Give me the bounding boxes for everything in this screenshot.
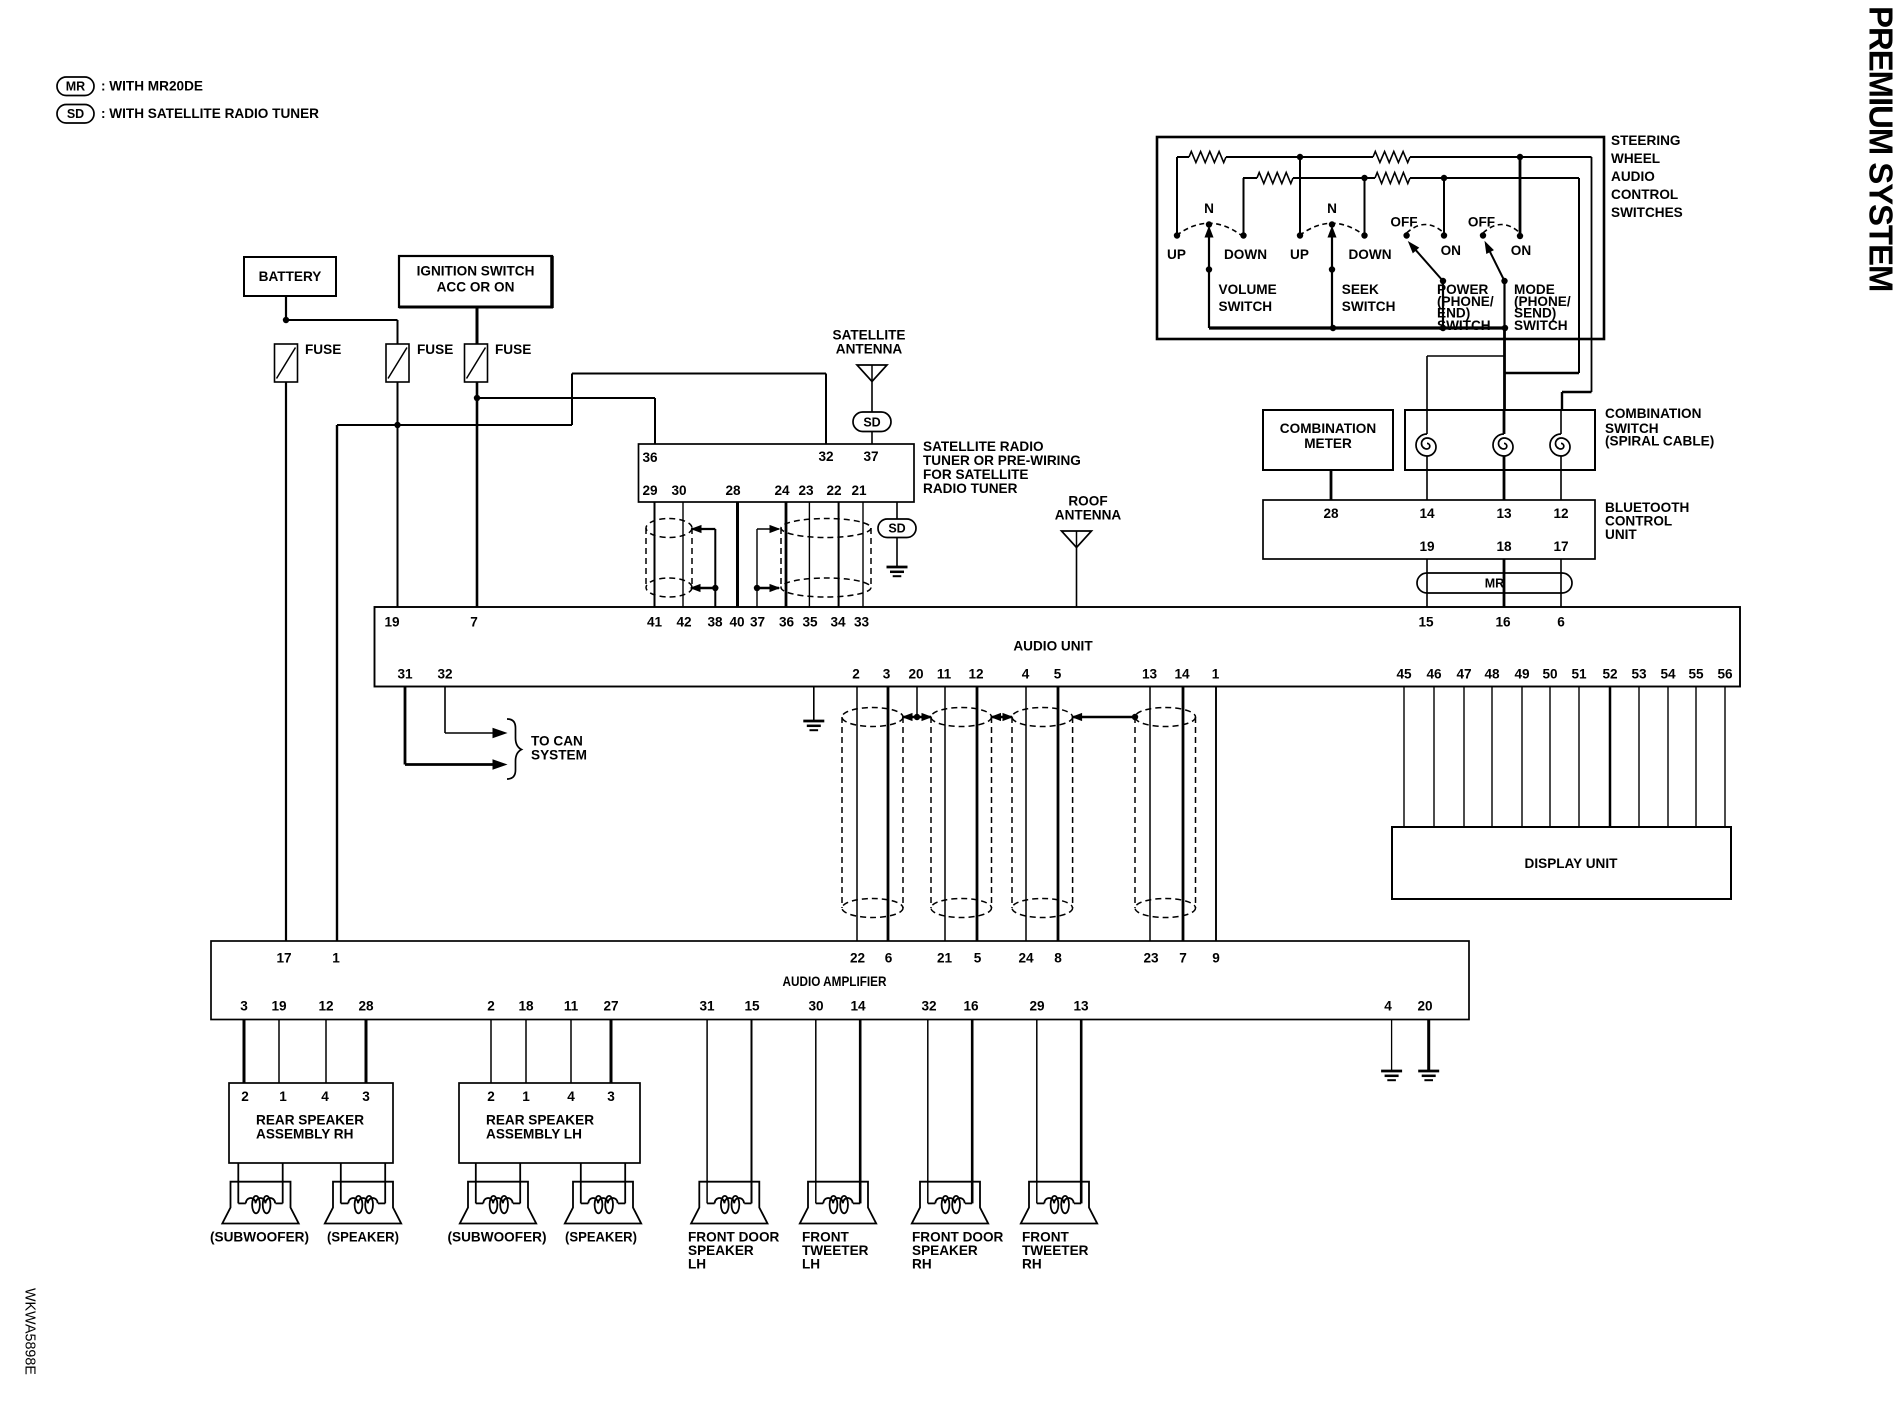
svg-text:PREMIUM SYSTEM: PREMIUM SYSTEM (1863, 6, 1898, 291)
svg-text:BATTERY: BATTERY (259, 269, 322, 284)
svg-text:27: 27 (603, 999, 618, 1014)
svg-text:52: 52 (1602, 667, 1618, 682)
svg-text:18: 18 (518, 999, 534, 1014)
svg-text:FUSE: FUSE (305, 342, 341, 357)
svg-text:TO CAN: TO CAN (531, 734, 583, 749)
svg-text:LH: LH (688, 1257, 706, 1272)
svg-text:SD: SD (67, 107, 84, 121)
svg-text:30: 30 (808, 999, 823, 1014)
svg-text:AUDIO UNIT: AUDIO UNIT (1013, 639, 1093, 654)
svg-text:34: 34 (830, 615, 846, 630)
svg-text:14: 14 (850, 999, 866, 1014)
svg-text:22: 22 (826, 483, 842, 498)
svg-text:UP: UP (1290, 247, 1309, 262)
svg-text:41: 41 (647, 615, 663, 630)
svg-text:RH: RH (912, 1257, 932, 1272)
svg-text:(SUBWOOFER): (SUBWOOFER) (448, 1230, 547, 1245)
svg-text:24: 24 (1018, 951, 1034, 966)
svg-text:5: 5 (1054, 667, 1062, 682)
svg-text:53: 53 (1631, 667, 1647, 682)
svg-text:: WITH MR20DE: : WITH MR20DE (101, 79, 203, 94)
svg-text:3: 3 (362, 1089, 370, 1104)
svg-text:55: 55 (1688, 667, 1704, 682)
svg-text:3: 3 (240, 999, 248, 1014)
svg-text:40: 40 (729, 615, 744, 630)
svg-text:UNIT: UNIT (1605, 527, 1637, 542)
svg-text:32: 32 (818, 449, 834, 464)
svg-text:MR: MR (1485, 577, 1504, 591)
svg-text:1: 1 (1212, 667, 1220, 682)
svg-text:STEERING: STEERING (1611, 133, 1681, 148)
svg-text:SD: SD (888, 522, 905, 536)
svg-text:(SPEAKER): (SPEAKER) (327, 1230, 399, 1245)
svg-text:ANTENNA: ANTENNA (1055, 508, 1122, 523)
svg-text:23: 23 (798, 483, 814, 498)
svg-text:ROOF: ROOF (1068, 494, 1107, 509)
svg-text:MR: MR (66, 80, 85, 94)
svg-text:21: 21 (851, 483, 867, 498)
svg-text:RH: RH (1022, 1257, 1042, 1272)
svg-text:RADIO TUNER: RADIO TUNER (923, 481, 1018, 496)
svg-text:DISPLAY UNIT: DISPLAY UNIT (1525, 856, 1619, 871)
svg-text:4: 4 (1384, 999, 1392, 1014)
svg-text:6: 6 (885, 951, 893, 966)
svg-text:(SPEAKER): (SPEAKER) (565, 1230, 637, 1245)
svg-text:SD: SD (863, 416, 880, 430)
svg-text:35: 35 (802, 615, 818, 630)
svg-text:23: 23 (1143, 951, 1159, 966)
svg-text:OFF: OFF (1390, 215, 1417, 230)
svg-text:31: 31 (699, 999, 715, 1014)
svg-text:20: 20 (908, 667, 923, 682)
svg-text:N: N (1204, 201, 1214, 216)
svg-text:AUDIO AMPLIFIER: AUDIO AMPLIFIER (783, 974, 887, 989)
svg-text:24: 24 (774, 483, 790, 498)
svg-text:14: 14 (1419, 506, 1435, 521)
svg-text:CONTROL: CONTROL (1611, 187, 1678, 202)
svg-text:20: 20 (1417, 999, 1432, 1014)
svg-text:7: 7 (470, 615, 478, 630)
svg-text:SWITCH: SWITCH (1437, 318, 1491, 333)
svg-text:4: 4 (321, 1089, 329, 1104)
svg-text:WKWA5898E: WKWA5898E (22, 1288, 38, 1375)
svg-text:16: 16 (1495, 615, 1511, 630)
svg-text:29: 29 (1029, 999, 1045, 1014)
svg-text:1: 1 (332, 951, 340, 966)
svg-text:UP: UP (1167, 247, 1186, 262)
svg-text:28: 28 (358, 999, 374, 1014)
svg-text:46: 46 (1426, 667, 1442, 682)
svg-text:5: 5 (974, 951, 982, 966)
svg-text:COMBINATION: COMBINATION (1280, 421, 1376, 436)
svg-text:29: 29 (642, 483, 658, 498)
svg-text:4: 4 (567, 1089, 575, 1104)
svg-text:15: 15 (744, 999, 760, 1014)
svg-text:SWITCH: SWITCH (1219, 299, 1273, 314)
svg-text:ANTENNA: ANTENNA (836, 342, 903, 357)
svg-text:3: 3 (883, 667, 891, 682)
svg-text:8: 8 (1054, 951, 1062, 966)
svg-text:37: 37 (863, 449, 878, 464)
svg-text:ASSEMBLY RH: ASSEMBLY RH (256, 1127, 353, 1142)
svg-text:(SUBWOOFER): (SUBWOOFER) (210, 1230, 309, 1245)
svg-text:6: 6 (1557, 615, 1565, 630)
svg-text:12: 12 (318, 999, 334, 1014)
svg-text:15: 15 (1418, 615, 1434, 630)
svg-text:COMBINATION: COMBINATION (1605, 406, 1701, 421)
svg-text:LH: LH (802, 1257, 820, 1272)
svg-text:FOR SATELLITE: FOR SATELLITE (923, 467, 1028, 482)
svg-text:FUSE: FUSE (495, 342, 531, 357)
svg-text:3: 3 (607, 1089, 615, 1104)
svg-text:ON: ON (1441, 243, 1461, 258)
svg-text:18: 18 (1496, 539, 1512, 554)
svg-text:32: 32 (921, 999, 937, 1014)
svg-text:42: 42 (676, 615, 692, 630)
svg-text:IGNITION SWITCH: IGNITION SWITCH (417, 264, 535, 279)
svg-text:19: 19 (384, 615, 400, 630)
svg-text:37: 37 (750, 615, 765, 630)
svg-text:: WITH SATELLITE RADIO TUNER: : WITH SATELLITE RADIO TUNER (101, 106, 319, 121)
svg-text:WHEEL: WHEEL (1611, 151, 1660, 166)
svg-text:2: 2 (487, 999, 495, 1014)
svg-text:SATELLITE RADIO: SATELLITE RADIO (923, 439, 1044, 454)
svg-text:30: 30 (671, 483, 686, 498)
svg-text:REAR SPEAKER: REAR SPEAKER (486, 1113, 594, 1128)
svg-text:54: 54 (1660, 667, 1676, 682)
svg-text:17: 17 (1553, 539, 1568, 554)
svg-text:N: N (1327, 201, 1337, 216)
svg-text:SWITCH: SWITCH (1342, 299, 1396, 314)
svg-text:13: 13 (1073, 999, 1089, 1014)
svg-text:21: 21 (937, 951, 953, 966)
svg-text:38: 38 (707, 615, 723, 630)
svg-text:12: 12 (968, 667, 984, 682)
svg-text:51: 51 (1571, 667, 1587, 682)
svg-text:28: 28 (1323, 506, 1339, 521)
svg-text:36: 36 (779, 615, 795, 630)
svg-text:FUSE: FUSE (417, 342, 453, 357)
svg-text:50: 50 (1542, 667, 1557, 682)
svg-text:DOWN: DOWN (1348, 247, 1391, 262)
svg-text:1: 1 (279, 1089, 287, 1104)
svg-text:11: 11 (564, 999, 579, 1014)
svg-text:SEEK: SEEK (1342, 282, 1379, 297)
svg-text:47: 47 (1456, 667, 1471, 682)
svg-text:REAR SPEAKER: REAR SPEAKER (256, 1113, 364, 1128)
svg-text:12: 12 (1553, 506, 1569, 521)
svg-text:AUDIO: AUDIO (1611, 169, 1655, 184)
svg-text:2: 2 (241, 1089, 249, 1104)
svg-text:2: 2 (852, 667, 860, 682)
svg-text:13: 13 (1496, 506, 1512, 521)
svg-text:SYSTEM: SYSTEM (531, 748, 587, 763)
svg-text:7: 7 (1179, 951, 1187, 966)
svg-text:22: 22 (850, 951, 866, 966)
svg-text:DOWN: DOWN (1224, 247, 1267, 262)
svg-text:4: 4 (1022, 667, 1030, 682)
svg-text:SWITCH: SWITCH (1514, 318, 1568, 333)
svg-text:OFF: OFF (1468, 215, 1495, 230)
svg-text:TUNER OR PRE-WIRING: TUNER OR PRE-WIRING (923, 453, 1081, 468)
svg-text:33: 33 (854, 615, 870, 630)
svg-text:49: 49 (1514, 667, 1530, 682)
svg-text:SWITCHES: SWITCHES (1611, 205, 1683, 220)
svg-text:45: 45 (1396, 667, 1412, 682)
svg-text:2: 2 (487, 1089, 495, 1104)
svg-text:48: 48 (1484, 667, 1500, 682)
svg-text:ON: ON (1511, 243, 1531, 258)
svg-text:28: 28 (725, 483, 741, 498)
svg-text:11: 11 (937, 667, 952, 682)
svg-text:METER: METER (1304, 436, 1352, 451)
svg-text:14: 14 (1174, 667, 1190, 682)
svg-text:SATELLITE: SATELLITE (833, 328, 906, 343)
svg-text:36: 36 (642, 450, 658, 465)
svg-text:19: 19 (1419, 539, 1435, 554)
svg-text:ASSEMBLY LH: ASSEMBLY LH (486, 1127, 582, 1142)
svg-text:9: 9 (1212, 951, 1220, 966)
svg-text:13: 13 (1142, 667, 1158, 682)
svg-text:19: 19 (271, 999, 287, 1014)
svg-text:31: 31 (397, 667, 413, 682)
svg-text:ACC OR ON: ACC OR ON (437, 280, 515, 295)
svg-text:56: 56 (1717, 667, 1733, 682)
svg-text:1: 1 (522, 1089, 530, 1104)
svg-text:32: 32 (437, 667, 453, 682)
svg-text:16: 16 (963, 999, 979, 1014)
svg-text:17: 17 (276, 951, 291, 966)
svg-text:(SPIRAL CABLE): (SPIRAL CABLE) (1605, 434, 1714, 449)
svg-text:VOLUME: VOLUME (1219, 282, 1277, 297)
